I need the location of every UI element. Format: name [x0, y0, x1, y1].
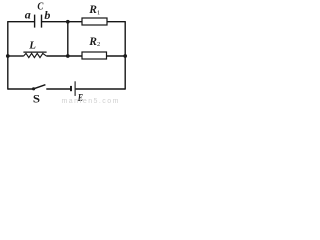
- svg-text:C: C: [37, 1, 43, 13]
- svg-text:a: a: [25, 8, 31, 22]
- svg-text:L: L: [28, 40, 36, 52]
- svg-text:manfen5.com: manfen5.com: [62, 98, 120, 104]
- svg-text:S: S: [33, 92, 40, 104]
- svg-text:b: b: [44, 8, 50, 22]
